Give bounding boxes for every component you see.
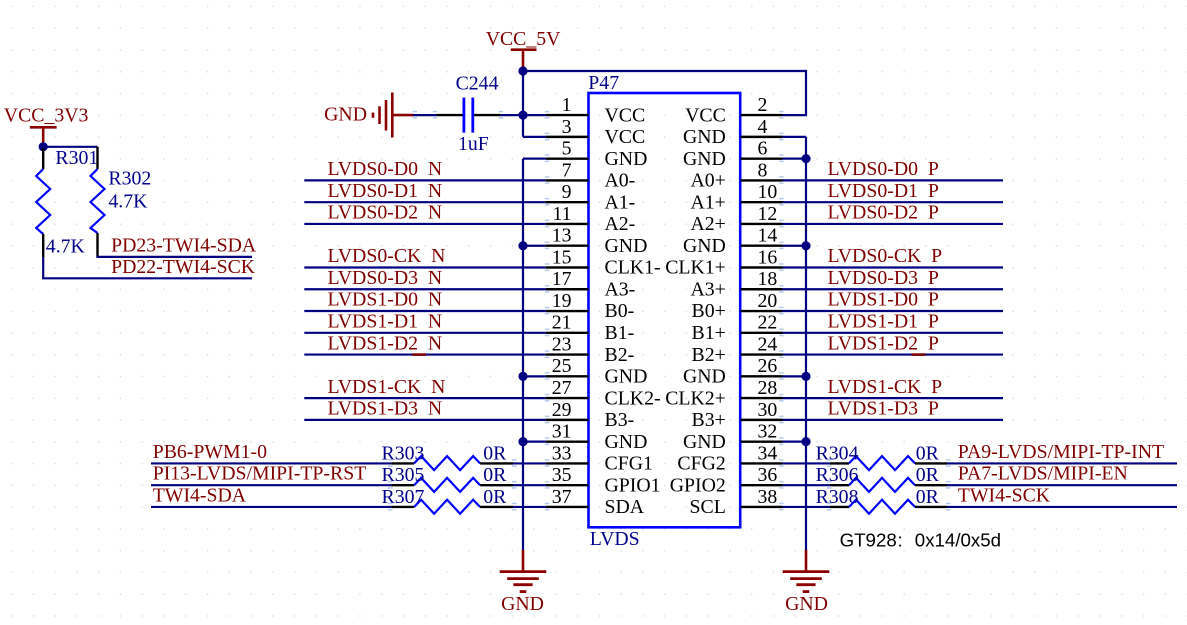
wire GND rail to pin26 xyxy=(783,375,807,377)
pin 29 (B3-) xyxy=(546,399,634,431)
svg-text:20: 20 xyxy=(758,290,778,312)
pin 18 (A3+) xyxy=(690,268,782,300)
svg-text:34: 34 xyxy=(758,442,778,464)
wire GND rail left vertical xyxy=(522,159,524,551)
resistor R301 xyxy=(36,147,98,257)
svg-text:4.7K: 4.7K xyxy=(108,191,148,213)
svg-text:LVDS0-D2 P: LVDS0-D2 P xyxy=(828,202,939,224)
wire net LVDS1-D0_P xyxy=(783,310,1004,312)
wire net PB6-PWM1-0 xyxy=(151,462,391,464)
svg-text:37: 37 xyxy=(552,486,572,508)
svg-text:R303: R303 xyxy=(382,442,425,464)
svg-text:22: 22 xyxy=(758,312,778,334)
resistor R303 xyxy=(382,442,514,470)
svg-text:0R: 0R xyxy=(916,442,940,464)
wire net LVDS0-D1_N xyxy=(304,201,546,203)
wire R302 branch top xyxy=(43,146,97,148)
svg-text:C244: C244 xyxy=(456,73,499,95)
svg-text:17: 17 xyxy=(552,268,572,290)
svg-text:1: 1 xyxy=(562,94,572,116)
wire VCC top horizontal to pin2 xyxy=(523,70,806,72)
pin 22 (B1+) xyxy=(692,312,783,344)
wire net LVDS1-CK_P xyxy=(783,397,1004,399)
svg-text:9: 9 xyxy=(562,181,572,203)
wire GND rail to pin5 xyxy=(523,158,546,160)
svg-text:B0-: B0- xyxy=(605,300,635,322)
svg-text:LVDS0-CK P: LVDS0-CK P xyxy=(828,245,943,267)
note GT928 addresses xyxy=(840,530,1001,551)
svg-text:B2-: B2- xyxy=(605,344,635,366)
svg-text:VCC_5V: VCC_5V xyxy=(486,28,561,50)
svg-text:LVDS1-CK N: LVDS1-CK N xyxy=(328,376,446,398)
wire net LVDS1-CK_N xyxy=(304,397,546,399)
svg-text:R305: R305 xyxy=(382,464,425,486)
svg-text:1uF: 1uF xyxy=(458,133,489,155)
power VCC_3V3 xyxy=(4,104,89,143)
svg-text:VCC_3V3: VCC_3V3 xyxy=(4,104,89,126)
svg-text:A3+: A3+ xyxy=(690,278,725,300)
svg-text:13: 13 xyxy=(552,225,572,247)
svg-text:10: 10 xyxy=(758,181,778,203)
svg-text:LVDS0-D1 N: LVDS0-D1 N xyxy=(328,180,443,202)
svg-text:0R: 0R xyxy=(483,442,507,464)
wire joint markers xyxy=(388,111,951,511)
svg-text:LVDS1-D3 P: LVDS1-D3 P xyxy=(828,398,939,420)
connector P47 body xyxy=(589,93,741,527)
svg-text:PD23-TWI4-SDA: PD23-TWI4-SDA xyxy=(111,234,257,256)
wire net LVDS1-D2_N xyxy=(304,353,546,355)
svg-text:LVDS: LVDS xyxy=(590,528,640,550)
wire pin to R304 xyxy=(783,462,831,464)
svg-text:A0+: A0+ xyxy=(690,170,725,192)
svg-text:CFG2: CFG2 xyxy=(677,453,725,475)
resistor R307 xyxy=(382,486,514,514)
svg-text:15: 15 xyxy=(552,246,572,268)
svg-text:30: 30 xyxy=(758,399,778,421)
svg-text:B1-: B1- xyxy=(605,322,635,344)
wire net PI13-LVDS/MIPI-TP-RST xyxy=(151,484,391,486)
svg-text:P47: P47 xyxy=(588,72,619,94)
svg-text:TWI4-SCK: TWI4-SCK xyxy=(958,484,1051,506)
svg-text:7: 7 xyxy=(562,159,572,181)
svg-text:29: 29 xyxy=(552,399,572,421)
pin 27 (CLK2-) xyxy=(546,377,661,409)
svg-text:LVDS0-D1 P: LVDS0-D1 P xyxy=(828,180,939,202)
pin 4 (GND) xyxy=(683,116,783,148)
pin 20 (B0+) xyxy=(692,290,783,322)
wire GND rail to pin13 xyxy=(523,245,546,247)
svg-text:33: 33 xyxy=(552,442,572,464)
svg-text:GND: GND xyxy=(501,593,544,615)
wire net LVDS0-D0_N xyxy=(304,179,546,181)
svg-text:2: 2 xyxy=(758,94,768,116)
svg-text:GND: GND xyxy=(683,366,726,388)
svg-text:23: 23 xyxy=(552,333,572,355)
ground GND (right, bottom) xyxy=(783,550,830,615)
svg-text:R308: R308 xyxy=(816,486,859,508)
resistor R308 xyxy=(816,486,947,514)
svg-text:LVDS0-D3 N: LVDS0-D3 N xyxy=(328,267,443,289)
svg-text:PA9-LVDS/MIPI-TP-INT: PA9-LVDS/MIPI-TP-INT xyxy=(958,441,1164,463)
wire R307 to pin xyxy=(513,506,546,508)
ground GND (capacitor) xyxy=(324,93,413,138)
node GND rail pin6 junction xyxy=(801,154,810,163)
wire R305 to pin xyxy=(513,484,546,486)
wire net LVDS0-D1_P xyxy=(783,201,1004,203)
svg-text:R301: R301 xyxy=(55,147,98,169)
svg-text:PB6-PWM1-0: PB6-PWM1-0 xyxy=(153,441,267,463)
svg-text:SCL: SCL xyxy=(690,496,726,518)
wire VCC rail left (pins 1,3) xyxy=(522,67,524,137)
svg-text:A3-: A3- xyxy=(605,278,636,300)
svg-text:CLK1+: CLK1+ xyxy=(665,257,726,279)
svg-text:B2+: B2+ xyxy=(692,344,726,366)
svg-text:LVDS1-D1 N: LVDS1-D1 N xyxy=(328,311,443,333)
pin 9 (A1-) xyxy=(546,181,635,213)
svg-text:GND: GND xyxy=(683,235,726,257)
wire net LVDS0-D3_N xyxy=(304,288,546,290)
node pin1 junction xyxy=(518,111,527,120)
pin 21 (B1-) xyxy=(546,312,634,344)
pin 15 (CLK1-) xyxy=(546,246,661,278)
svg-text:18: 18 xyxy=(758,268,778,290)
power VCC_5V xyxy=(486,28,561,67)
wire GND rail to pin25 xyxy=(523,375,546,377)
wire GND rail to pin31 xyxy=(523,441,546,443)
pin 37 (SDA) xyxy=(546,486,645,518)
resistor R305 xyxy=(382,464,514,492)
svg-text:8: 8 xyxy=(758,159,768,181)
svg-text:CFG1: CFG1 xyxy=(605,453,653,475)
pin 28 (CLK2+) xyxy=(665,377,782,409)
node GND rail pin25 junction xyxy=(518,372,527,381)
capacitor C244 xyxy=(437,73,501,156)
pin 16 (CLK1+) xyxy=(665,246,782,278)
wire net LVDS1-D2_P xyxy=(783,353,1004,355)
pin 5 (GND) xyxy=(546,138,648,170)
svg-text:25: 25 xyxy=(552,355,572,377)
svg-text:GT928: GT928 xyxy=(840,530,897,551)
svg-text:LVDS1-D2 N: LVDS1-D2 N xyxy=(328,332,443,354)
svg-text:GND: GND xyxy=(683,431,726,453)
wire net TWI4-SDA xyxy=(151,506,391,508)
wire net LVDS1-D3_P xyxy=(783,419,1004,421)
svg-text:A1-: A1- xyxy=(605,191,636,213)
wire pin to R306 xyxy=(783,484,831,486)
pin 34 (CFG2) xyxy=(677,442,782,474)
svg-text:0R: 0R xyxy=(916,464,940,486)
pin 25 (GND) xyxy=(546,355,648,387)
svg-text:TWI4-SDA: TWI4-SDA xyxy=(153,484,247,506)
svg-text:R302: R302 xyxy=(108,167,151,189)
svg-text:GND: GND xyxy=(683,126,726,148)
svg-text:B1+: B1+ xyxy=(692,322,726,344)
pin 14 (GND) xyxy=(683,225,783,257)
node GND rail pin31 junction xyxy=(518,437,527,446)
svg-text:0x14/0x5d: 0x14/0x5d xyxy=(915,530,1001,551)
wire net LVDS0-D0_P xyxy=(783,179,1004,181)
wire GND rail to pin4 xyxy=(783,136,807,138)
svg-text:19: 19 xyxy=(552,290,572,312)
svg-text:B3-: B3- xyxy=(605,409,635,431)
resistor R302 xyxy=(91,147,152,257)
pin 36 (GPIO2) xyxy=(670,464,783,496)
pin 3 (VCC) xyxy=(546,116,645,148)
svg-text:A1+: A1+ xyxy=(690,191,725,213)
svg-text:6: 6 xyxy=(758,138,768,160)
ground GND (left, bottom) xyxy=(500,550,547,615)
svg-text:LVDS1-CK P: LVDS1-CK P xyxy=(828,376,943,398)
net LVDS1-D2_P underscore xyxy=(912,353,926,356)
node GND rail pin26 junction xyxy=(801,372,810,381)
svg-text:24: 24 xyxy=(758,333,778,355)
wire net LVDS0-D3_P xyxy=(783,288,1004,290)
pin 19 (B0-) xyxy=(546,290,634,322)
svg-text:CLK2-: CLK2- xyxy=(605,387,661,409)
svg-text:GPIO1: GPIO1 xyxy=(605,474,661,496)
svg-text:0R: 0R xyxy=(916,486,940,508)
svg-text:LVDS0-CK N: LVDS0-CK N xyxy=(328,245,446,267)
svg-text:LVDS0-D0 N: LVDS0-D0 N xyxy=(328,158,443,180)
pin 17 (A3-) xyxy=(546,268,635,300)
wire net LVDS0-CK_N xyxy=(304,266,546,268)
svg-text:36: 36 xyxy=(758,464,778,486)
svg-text:11: 11 xyxy=(552,203,571,225)
wire net LVDS1-D1_N xyxy=(304,332,546,334)
svg-text:PD22-TWI4-SCK: PD22-TWI4-SCK xyxy=(111,256,256,278)
svg-text:4.7K: 4.7K xyxy=(46,235,86,257)
wire cap to pin1 xyxy=(501,114,546,116)
wire GND rail to pin14 xyxy=(783,245,807,247)
svg-text:SDA: SDA xyxy=(605,496,645,518)
wire net PD22-TWI4-SCK xyxy=(42,257,44,278)
wire net LVDS0-D2_P xyxy=(783,223,1004,225)
svg-text:35: 35 xyxy=(552,464,572,486)
svg-text:12: 12 xyxy=(758,203,778,225)
node GND rail pin13 junction xyxy=(518,241,527,250)
pin 30 (B3+) xyxy=(692,399,783,431)
svg-text:27: 27 xyxy=(552,377,572,399)
svg-text:GND: GND xyxy=(785,593,828,615)
pin 11 (A2-) xyxy=(546,203,635,235)
svg-text:0R: 0R xyxy=(483,464,507,486)
svg-text:PA7-LVDS/MIPI-EN: PA7-LVDS/MIPI-EN xyxy=(958,463,1128,485)
resistor R306 xyxy=(816,464,947,492)
svg-text:LVDS1-D1 P: LVDS1-D1 P xyxy=(828,311,939,333)
resistor R304 xyxy=(816,442,947,470)
pin 38 (SCL) xyxy=(690,486,783,518)
svg-text:31: 31 xyxy=(552,421,572,443)
wire net PA9-LVDS/MIPI-TP-INT xyxy=(947,462,1177,464)
pin 10 (A1+) xyxy=(690,181,782,213)
svg-text:R307: R307 xyxy=(382,486,425,508)
svg-text:21: 21 xyxy=(552,312,572,334)
svg-text:VCC: VCC xyxy=(605,104,646,126)
svg-text:GND: GND xyxy=(605,148,648,170)
wire net LVDS0-CK_P xyxy=(783,266,1004,268)
node VCC_5V junction xyxy=(518,66,527,75)
node GND rail pin14 junction xyxy=(801,241,810,250)
pin 26 (GND) xyxy=(683,355,783,387)
wire VCC down to pin2 xyxy=(805,70,807,115)
svg-text:CLK2+: CLK2+ xyxy=(665,387,726,409)
pin 8 (A0+) xyxy=(690,159,782,191)
svg-text:B3+: B3+ xyxy=(692,409,726,431)
svg-text:R304: R304 xyxy=(816,442,859,464)
svg-text:LVDS1-D3 N: LVDS1-D3 N xyxy=(328,398,443,420)
pin 7 (A0-) xyxy=(546,159,635,191)
svg-text::: : xyxy=(898,530,903,551)
pin 31 (GND) xyxy=(546,421,648,453)
svg-text:A2+: A2+ xyxy=(690,213,725,235)
pin 2 (VCC) xyxy=(685,94,782,126)
svg-text:GND: GND xyxy=(324,104,367,126)
pin 33 (CFG1) xyxy=(546,442,653,474)
svg-text:14: 14 xyxy=(758,225,778,247)
wire net LVDS1-D3_N xyxy=(304,419,546,421)
wire pin to R308 xyxy=(783,506,831,508)
wire GND rail right vertical xyxy=(805,137,807,550)
svg-text:3: 3 xyxy=(562,116,572,138)
wire net LVDS0-D2_N xyxy=(304,223,546,225)
svg-text:LVDS0-D3 P: LVDS0-D3 P xyxy=(828,267,939,289)
svg-text:LVDS1-D0 N: LVDS1-D0 N xyxy=(328,289,443,311)
svg-text:GPIO2: GPIO2 xyxy=(670,474,726,496)
svg-text:GND: GND xyxy=(605,366,648,388)
svg-text:LVDS0-D0 P: LVDS0-D0 P xyxy=(828,158,939,180)
svg-text:B0+: B0+ xyxy=(692,300,726,322)
pin 23 (B2-) xyxy=(546,333,634,365)
pin 12 (A2+) xyxy=(690,203,782,235)
svg-text:4: 4 xyxy=(758,116,768,138)
svg-text:LVDS1-D0 P: LVDS1-D0 P xyxy=(828,289,939,311)
node VCC_3V3 junction xyxy=(39,142,48,151)
pin 24 (B2+) xyxy=(692,333,783,365)
svg-text:VCC: VCC xyxy=(685,104,726,126)
svg-text:A2-: A2- xyxy=(605,213,636,235)
svg-text:GND: GND xyxy=(683,148,726,170)
svg-text:38: 38 xyxy=(758,486,778,508)
svg-text:32: 32 xyxy=(758,421,778,443)
net LVDS1-D2_N underscore xyxy=(412,353,426,356)
svg-text:A0-: A0- xyxy=(605,170,636,192)
pin 32 (GND) xyxy=(683,421,783,453)
wire R303 to pin xyxy=(513,462,546,464)
svg-text:PI13-LVDS/MIPI-TP-RST: PI13-LVDS/MIPI-TP-RST xyxy=(153,463,367,485)
svg-text:LVDS1-D2 P: LVDS1-D2 P xyxy=(828,332,939,354)
wire net PA7-LVDS/MIPI-EN xyxy=(947,484,1177,486)
svg-text:0R: 0R xyxy=(483,486,507,508)
pin 13 (GND) xyxy=(546,225,648,257)
wire net LVDS1-D1_P xyxy=(783,332,1004,334)
wire net TWI4-SCK xyxy=(947,506,1177,508)
wire net LVDS1-D0_N xyxy=(304,310,546,312)
svg-text:5: 5 xyxy=(562,138,572,160)
svg-text:28: 28 xyxy=(758,377,778,399)
wire net PD23-TWI4-SDA xyxy=(96,256,252,258)
pin 35 (GPIO1) xyxy=(546,464,661,496)
svg-text:26: 26 xyxy=(758,355,778,377)
svg-text:R306: R306 xyxy=(816,464,859,486)
wire GND rail to pin6 xyxy=(783,158,807,160)
node GND rail pin32 junction xyxy=(801,437,810,446)
svg-text:CLK1-: CLK1- xyxy=(605,257,661,279)
pin 6 (GND) xyxy=(683,138,783,170)
wire GND rail to pin32 xyxy=(783,441,807,443)
svg-text:GND: GND xyxy=(605,235,648,257)
svg-text:VCC: VCC xyxy=(605,126,646,148)
svg-text:GND: GND xyxy=(605,431,648,453)
wire GND to C244 xyxy=(413,114,437,116)
pin 1 (VCC) xyxy=(546,94,645,126)
svg-text:16: 16 xyxy=(758,246,778,268)
svg-text:LVDS0-D2 N: LVDS0-D2 N xyxy=(328,202,443,224)
